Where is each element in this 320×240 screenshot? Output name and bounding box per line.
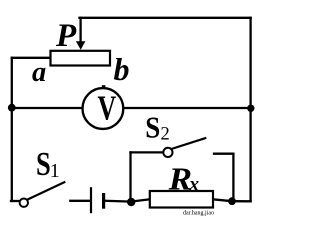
svg-text:S: S bbox=[36, 145, 51, 183]
wire S2 left terminal bbox=[131, 151, 164, 153]
potentiometer P body bbox=[51, 51, 111, 66]
potentiometer P slider stem bbox=[79, 18, 81, 43]
label S2 bbox=[145, 111, 160, 145]
svg-text:P: P bbox=[55, 18, 77, 54]
switch S2 lever bbox=[171, 138, 206, 149]
wire top horizontal bbox=[80, 17, 251, 19]
resistor Rx body bbox=[150, 191, 213, 208]
svg-text:1: 1 bbox=[50, 160, 60, 182]
voltmeter V body bbox=[83, 88, 124, 129]
label S1 bbox=[36, 145, 51, 183]
node right middle junction bbox=[247, 105, 254, 112]
battery short plate bbox=[102, 193, 105, 209]
wire middle horizontal (voltmeter row) bbox=[12, 107, 251, 109]
wire left vertical bbox=[11, 58, 13, 201]
node left middle junction bbox=[8, 104, 16, 112]
svg-text:x: x bbox=[188, 175, 199, 196]
switch S1 pivot circle bbox=[20, 199, 28, 207]
switch S1 lever bbox=[27, 182, 66, 200]
wire right junction to bottom right corner bbox=[232, 200, 251, 202]
wire S2 right terminal horizontal bbox=[214, 153, 233, 155]
node Rx right junction bbox=[228, 197, 236, 205]
wire bottom (S1 to battery) bbox=[70, 200, 90, 202]
wire battery to left junction bbox=[105, 200, 131, 203]
svg-text:2: 2 bbox=[161, 125, 170, 145]
potentiometer P slider arrowhead bbox=[76, 41, 86, 50]
wire Rx box to right junction bbox=[213, 199, 232, 201]
wire stub to switch S1 bbox=[11, 200, 19, 202]
wire parallel-block left vertical bbox=[129, 152, 131, 201]
svg-text:S: S bbox=[145, 111, 160, 145]
switch S2 pivot circle bbox=[163, 148, 172, 157]
battery long plate bbox=[90, 187, 92, 213]
wire rheostat terminal a branch bbox=[12, 57, 51, 59]
node battery-Rx left junction bbox=[127, 198, 135, 206]
wire left junction to Rx box bbox=[131, 199, 150, 201]
wire parallel-block right vertical bbox=[232, 154, 234, 201]
label Rx bbox=[168, 162, 193, 197]
svg-text:a: a bbox=[32, 57, 46, 88]
wire right vertical bbox=[249, 18, 251, 202]
svg-text:dar.hang.jiao: dar.hang.jiao bbox=[183, 211, 214, 217]
svg-text:V: V bbox=[97, 89, 116, 128]
voltmeter V top tick bbox=[102, 85, 106, 88]
svg-text:b: b bbox=[114, 51, 130, 87]
